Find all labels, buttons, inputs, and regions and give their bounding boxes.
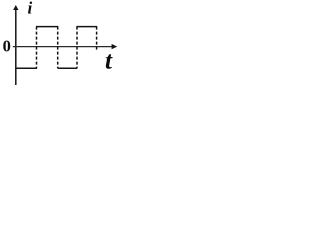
waveform positive segment 2 [76, 26, 97, 28]
waveform falling edge 2 (dashed, short) [96, 27, 98, 51]
current axis (vertical i-axis) [13, 5, 18, 85]
waveform negative segment 1 [15, 67, 37, 69]
waveform rising edge 1 (dashed) [36, 27, 38, 69]
waveform falling edge 1 (dashed) [57, 27, 59, 69]
waveform positive segment 1 [36, 26, 58, 28]
svg-text:0: 0 [3, 37, 11, 56]
waveform rising edge 2 (dashed) [76, 27, 78, 69]
background [0, 0, 122, 85]
svg-text:t: t [105, 48, 113, 75]
svg-text:i: i [28, 0, 33, 18]
time axis (horizontal t-axis) [13, 44, 117, 49]
waveform negative segment 2 [58, 67, 77, 69]
